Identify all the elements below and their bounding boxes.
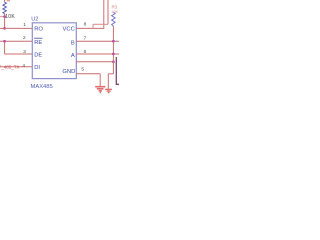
svg-text:DE: DE xyxy=(34,52,42,58)
wire B to A segment xyxy=(112,41,114,54)
wire A pin 6 to right edge xyxy=(76,53,119,55)
wire 485_TX net to pin 4 xyxy=(0,66,32,68)
junction dot on RE wire xyxy=(3,40,6,43)
junction dot on A wire xyxy=(112,53,115,56)
svg-text:2: 2 xyxy=(23,35,26,41)
wire GND drop xyxy=(99,74,101,87)
wire VCC pin 8 to vertical riser xyxy=(76,27,104,29)
wire VCC branch vertical at x93 xyxy=(92,24,94,28)
connector J1 partial outline (bottom-right) xyxy=(116,57,119,84)
svg-text:5: 5 xyxy=(81,67,84,73)
svg-text:A: A xyxy=(71,53,75,59)
svg-text:T_485_TX: T_485_TX xyxy=(0,64,20,69)
wire R3 bottom stub to B xyxy=(112,26,114,41)
clipped designator fragment R2 xyxy=(7,0,10,1)
wire VCC branch riser to top edge xyxy=(107,0,109,24)
svg-text:1: 1 xyxy=(23,22,26,28)
ground symbol (bias network) xyxy=(105,89,112,92)
wire RE to DE tie vertical xyxy=(4,41,6,54)
junction dot at resistor bottom xyxy=(3,15,6,18)
wire jog left xyxy=(108,73,113,75)
wire drop to ground xyxy=(107,74,109,89)
junction dot on B wire xyxy=(112,40,115,43)
wire GND net to bias vertical xyxy=(76,61,113,63)
op-amp chip U2 MAX485 body xyxy=(32,23,76,79)
svg-text:RE: RE xyxy=(34,40,42,46)
svg-text:B: B xyxy=(71,40,75,46)
wire B pin 7 to right edge xyxy=(76,40,119,42)
wire stub left at resistor junction xyxy=(0,16,5,18)
junction dot on RO wire xyxy=(3,27,6,30)
svg-text:VCC: VCC xyxy=(63,27,75,33)
svg-text:U2: U2 xyxy=(31,16,38,22)
svg-text:4: 4 xyxy=(22,63,25,69)
svg-text:GND: GND xyxy=(62,69,75,75)
wire A down segment xyxy=(112,54,114,74)
svg-text:3: 3 xyxy=(23,49,26,55)
wire VCC riser to top edge xyxy=(103,0,105,28)
resistor R2 10K pull-up (top-left) xyxy=(3,0,6,17)
wire VCC branch horizontal xyxy=(93,23,108,25)
wire RE net to pin 2 xyxy=(0,40,32,42)
svg-text:DI: DI xyxy=(34,65,40,71)
svg-text:8: 8 xyxy=(84,22,87,28)
svg-text:MAX485: MAX485 xyxy=(31,84,53,90)
resistor R3 zigzag xyxy=(112,12,116,26)
svg-text:10K: 10K xyxy=(5,14,15,20)
ground symbol (chip GND) xyxy=(95,87,105,93)
junction dot at bias vertical xyxy=(112,60,115,63)
svg-text:RO: RO xyxy=(34,27,43,33)
wire resistor to RO row xyxy=(4,17,6,29)
svg-text:7: 7 xyxy=(84,36,87,42)
wire GND pin 5 xyxy=(76,73,100,75)
wire DE row to pin 3 xyxy=(5,53,33,55)
wire RO net to pin 1 xyxy=(0,27,32,29)
